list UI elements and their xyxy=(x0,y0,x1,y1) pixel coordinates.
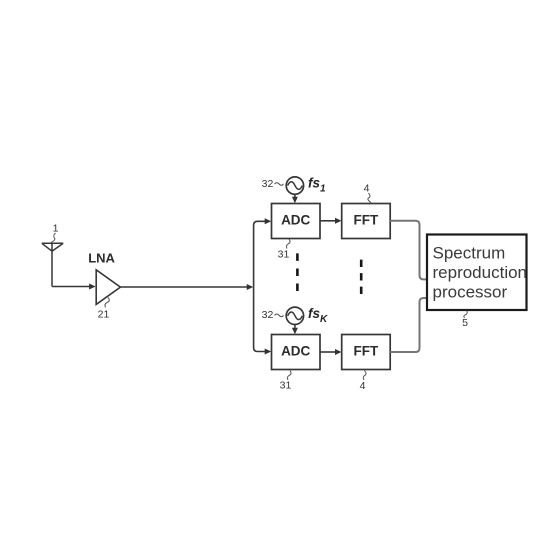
processor box 5 xyxy=(427,235,527,311)
svg-text:fsK: fsK xyxy=(308,306,328,325)
svg-text:21: 21 xyxy=(98,309,110,321)
wire oscillator to top ADC xyxy=(292,194,298,203)
ADC box top xyxy=(272,204,321,239)
svg-text:ADC: ADC xyxy=(281,344,310,359)
svg-text:1: 1 xyxy=(53,223,59,235)
svg-text:5: 5 xyxy=(462,317,468,329)
svg-text:ADC: ADC xyxy=(281,213,310,228)
label 4 bottom xyxy=(360,371,366,393)
label 32 bottom xyxy=(262,309,284,321)
FFT box top xyxy=(342,204,391,239)
label fs1 xyxy=(308,176,326,195)
arrow into bottom ADC xyxy=(265,349,272,355)
label 5 xyxy=(462,311,468,330)
svg-text:processor: processor xyxy=(433,283,508,302)
dashed line left xyxy=(296,253,299,291)
svg-text:FFT: FFT xyxy=(354,344,379,359)
label 1 xyxy=(51,223,59,243)
wire top FFT to processor xyxy=(390,221,426,280)
svg-text:31: 31 xyxy=(280,380,292,392)
wire antenna to LNA xyxy=(52,284,96,290)
svg-text:4: 4 xyxy=(360,380,366,392)
label 4 top xyxy=(364,183,371,203)
svg-text:LNA: LNA xyxy=(88,251,115,266)
svg-text:31: 31 xyxy=(278,249,290,261)
svg-text:Spectrum: Spectrum xyxy=(433,244,506,263)
svg-text:4: 4 xyxy=(364,183,370,195)
svg-text:reproduction: reproduction xyxy=(433,263,528,282)
svg-text:FFT: FFT xyxy=(354,213,379,228)
wire bottom FFT to processor xyxy=(390,298,426,352)
oscillator 32 (fs1) xyxy=(286,177,303,194)
wire bottom ADC to FFT xyxy=(320,349,342,355)
amplifier LNA xyxy=(88,251,120,305)
ADC box bottom xyxy=(272,335,321,370)
svg-text:32: 32 xyxy=(262,178,274,190)
dashed line right xyxy=(360,260,363,294)
label 21 xyxy=(98,298,110,321)
label 31 bottom xyxy=(280,371,292,392)
label fsK xyxy=(308,306,328,325)
svg-text:32: 32 xyxy=(262,309,274,321)
FFT box bottom xyxy=(342,335,391,370)
oscillator 32 (fsK) xyxy=(286,307,303,324)
label 32 top xyxy=(262,178,284,190)
label 31 top xyxy=(278,239,290,261)
wire top ADC to FFT xyxy=(320,218,342,224)
svg-text:fs1: fs1 xyxy=(308,176,326,195)
antenna 1 xyxy=(42,243,63,286)
wire LNA to junction xyxy=(120,284,253,290)
arrow into top ADC xyxy=(265,218,272,224)
distribution wire xyxy=(254,221,266,351)
wire oscillator to bottom ADC xyxy=(292,325,298,335)
